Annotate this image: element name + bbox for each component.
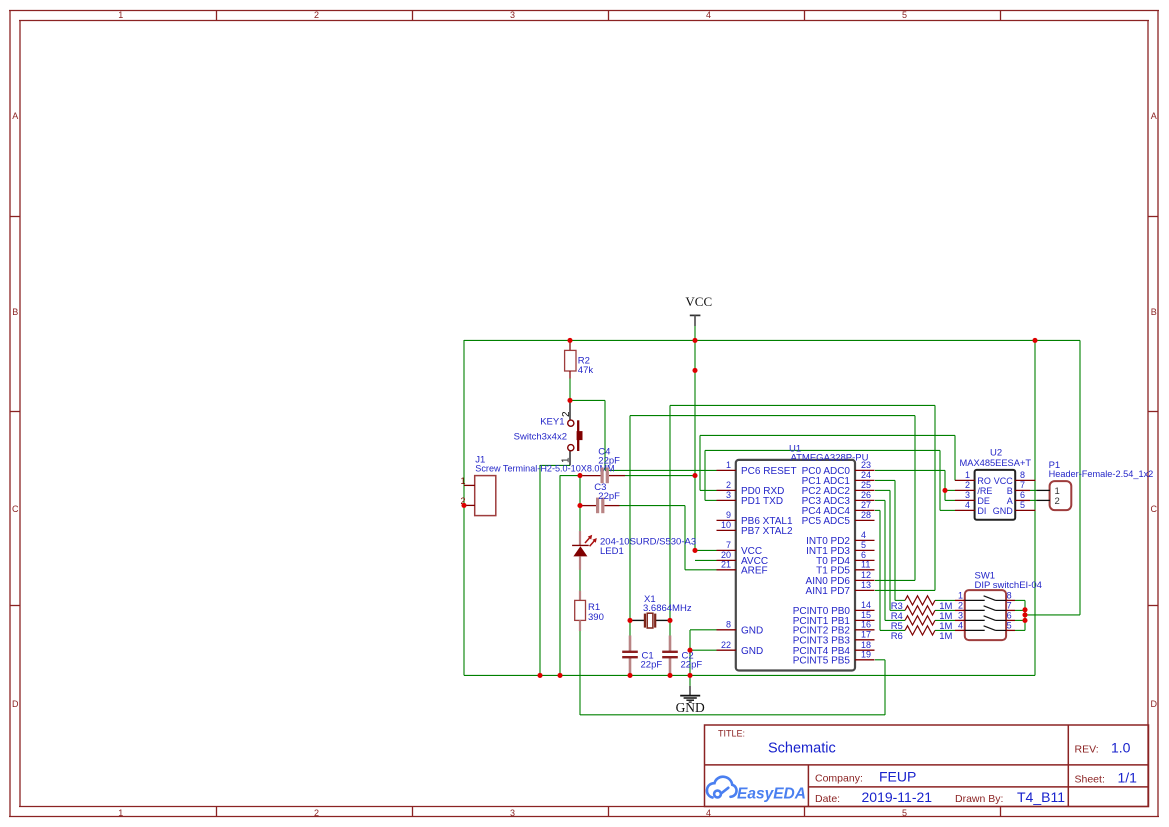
svg-text:/RE: /RE — [977, 486, 992, 496]
svg-text:A: A — [12, 111, 18, 121]
svg-text:D: D — [12, 699, 19, 709]
svg-text:8: 8 — [726, 620, 731, 630]
svg-text:PB7 XTAL2: PB7 XTAL2 — [741, 526, 793, 537]
svg-text:11: 11 — [861, 560, 870, 570]
svg-text:PCINT3 PB3: PCINT3 PB3 — [793, 635, 851, 646]
svg-text:3: 3 — [510, 10, 515, 20]
svg-text:5: 5 — [861, 540, 866, 550]
svg-text:3: 3 — [965, 490, 970, 500]
svg-text:B: B — [1151, 307, 1157, 317]
svg-text:KEY1: KEY1 — [540, 417, 564, 428]
svg-text:8: 8 — [1020, 470, 1025, 480]
svg-text:19: 19 — [861, 650, 871, 660]
svg-text:390: 390 — [588, 612, 604, 623]
svg-text:7: 7 — [726, 540, 731, 550]
svg-text:VCC: VCC — [685, 294, 712, 309]
svg-text:5: 5 — [902, 10, 907, 20]
svg-text:LED1: LED1 — [600, 546, 624, 557]
svg-text:4: 4 — [861, 530, 866, 540]
svg-text:13: 13 — [861, 580, 871, 590]
svg-text:9: 9 — [726, 510, 731, 520]
svg-text:2: 2 — [314, 808, 319, 818]
svg-text:2: 2 — [958, 601, 963, 611]
svg-text:T4_B11: T4_B11 — [1017, 789, 1065, 805]
svg-text:1: 1 — [958, 591, 963, 601]
svg-text:Sheet:: Sheet: — [1075, 774, 1105, 786]
svg-text:TITLE:: TITLE: — [718, 729, 745, 739]
svg-text:1.0: 1.0 — [1111, 740, 1131, 756]
svg-text:22pF: 22pF — [641, 660, 663, 671]
svg-text:1M: 1M — [939, 631, 952, 642]
svg-text:B: B — [1007, 486, 1013, 496]
svg-text:PC6 RESET: PC6 RESET — [741, 466, 797, 477]
svg-text:Header-Female-2.54_1x2: Header-Female-2.54_1x2 — [1049, 469, 1154, 479]
svg-text:1: 1 — [965, 470, 970, 480]
svg-text:1/1: 1/1 — [1118, 770, 1138, 786]
svg-text:DE: DE — [977, 496, 990, 506]
svg-text:PD1 TXD: PD1 TXD — [741, 496, 783, 507]
svg-text:GND: GND — [741, 646, 763, 657]
svg-text:2019-11-21: 2019-11-21 — [862, 789, 933, 805]
svg-text:47k: 47k — [578, 365, 594, 376]
svg-text:14: 14 — [861, 600, 871, 610]
svg-text:25: 25 — [861, 480, 871, 490]
svg-text:1: 1 — [460, 476, 465, 486]
svg-text:GND: GND — [993, 506, 1014, 516]
svg-text:22pF: 22pF — [598, 456, 620, 467]
svg-text:5: 5 — [902, 808, 907, 818]
svg-text:2: 2 — [726, 480, 731, 490]
svg-text:GND: GND — [676, 700, 705, 715]
svg-text:4: 4 — [965, 500, 970, 510]
svg-text:R6: R6 — [891, 631, 903, 642]
svg-text:Company:: Company: — [815, 772, 863, 784]
svg-text:MAX485EESA+T: MAX485EESA+T — [960, 458, 1032, 468]
svg-text:1: 1 — [118, 10, 123, 20]
svg-text:T1 PD5: T1 PD5 — [816, 565, 850, 576]
svg-text:6: 6 — [1020, 490, 1025, 500]
svg-text:22pF: 22pF — [598, 491, 620, 502]
svg-text:FEUP: FEUP — [879, 768, 916, 784]
svg-text:AREF: AREF — [741, 565, 768, 576]
svg-text:B: B — [12, 307, 18, 317]
svg-text:DIP switchEI-04: DIP switchEI-04 — [975, 580, 1042, 591]
svg-text:AIN1 PD7: AIN1 PD7 — [806, 586, 851, 597]
svg-text:4: 4 — [958, 621, 963, 631]
svg-text:VCC: VCC — [994, 476, 1014, 486]
svg-text:2: 2 — [314, 10, 319, 20]
svg-text:5: 5 — [1020, 500, 1025, 510]
svg-text:ATMEGA328P-PU: ATMEGA328P-PU — [791, 453, 869, 464]
svg-text:C: C — [1151, 504, 1158, 514]
svg-text:24: 24 — [861, 470, 871, 480]
svg-text:5: 5 — [1007, 621, 1012, 631]
svg-text:22pF: 22pF — [681, 660, 703, 671]
svg-text:GND: GND — [741, 625, 763, 636]
svg-text:28: 28 — [861, 510, 871, 520]
svg-text:A: A — [1151, 111, 1157, 121]
svg-text:A: A — [1007, 496, 1013, 506]
svg-text:23: 23 — [861, 460, 871, 470]
svg-text:8: 8 — [1007, 591, 1012, 601]
svg-text:16: 16 — [861, 620, 871, 630]
svg-text:4: 4 — [706, 808, 711, 818]
svg-text:4: 4 — [706, 10, 711, 20]
svg-text:1: 1 — [726, 460, 731, 470]
svg-text:2: 2 — [1055, 496, 1060, 507]
svg-text:Switch3x4x2: Switch3x4x2 — [514, 432, 567, 443]
svg-text:EasyEDA: EasyEDA — [737, 786, 806, 803]
svg-text:10: 10 — [721, 520, 731, 530]
svg-text:26: 26 — [861, 490, 871, 500]
svg-text:1: 1 — [560, 457, 571, 463]
svg-text:3: 3 — [958, 611, 963, 621]
svg-text:REV:: REV: — [1075, 744, 1099, 756]
svg-text:PCINT5 PB5: PCINT5 PB5 — [793, 655, 851, 666]
svg-text:Screw Terminal-H2-5.0-10X8.0MM: Screw Terminal-H2-5.0-10X8.0MM — [475, 464, 614, 474]
svg-text:6: 6 — [1007, 611, 1012, 621]
svg-text:PC5 ADC5: PC5 ADC5 — [802, 516, 851, 527]
svg-text:RO: RO — [977, 476, 991, 486]
svg-text:22: 22 — [721, 640, 731, 650]
svg-text:7: 7 — [1007, 601, 1012, 611]
svg-text:27: 27 — [861, 500, 871, 510]
svg-text:18: 18 — [861, 640, 871, 650]
svg-text:Drawn By:: Drawn By: — [955, 793, 1003, 805]
svg-text:3: 3 — [726, 490, 731, 500]
svg-text:3: 3 — [510, 808, 515, 818]
svg-text:C: C — [12, 504, 19, 514]
svg-text:1: 1 — [118, 808, 123, 818]
svg-text:Schematic: Schematic — [768, 740, 836, 756]
svg-text:2: 2 — [965, 480, 970, 490]
svg-text:3.6864MHz: 3.6864MHz — [643, 603, 692, 614]
svg-text:DI: DI — [977, 506, 986, 516]
svg-text:7: 7 — [1020, 480, 1025, 490]
svg-text:21: 21 — [721, 560, 731, 570]
svg-text:12: 12 — [861, 570, 871, 580]
svg-text:D: D — [1151, 699, 1158, 709]
svg-text:17: 17 — [861, 630, 871, 640]
svg-text:Date:: Date: — [815, 793, 840, 805]
